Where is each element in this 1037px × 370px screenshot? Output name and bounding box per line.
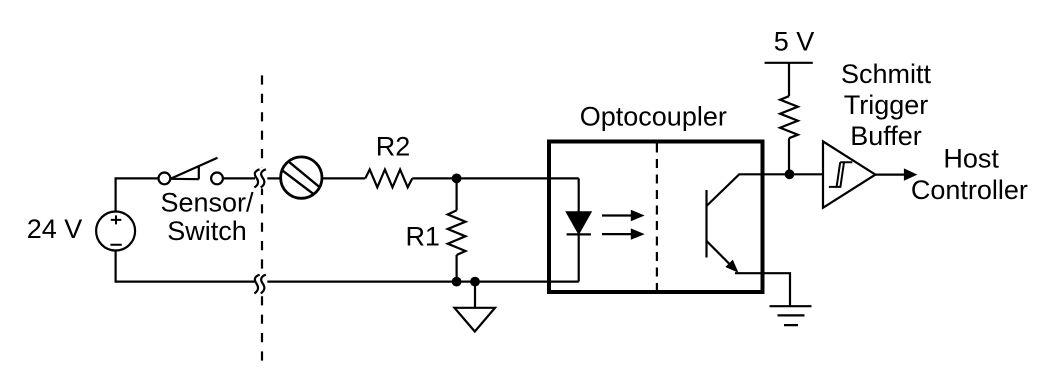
wire switch to break <box>223 177 255 179</box>
LED D1 triangle <box>567 212 590 233</box>
svg-text:R2: R2 <box>376 131 411 161</box>
svg-text:24 V: 24 V <box>27 214 83 244</box>
LED D1 anode wire <box>578 178 580 212</box>
svg-text:Optocoupler: Optocoupler <box>580 102 727 132</box>
resistor R1 <box>448 210 466 255</box>
voltage source V1 <box>96 212 135 251</box>
node (ground branch) <box>470 277 480 287</box>
wire circle to R2 <box>322 177 365 179</box>
pull-up resistor <box>780 96 798 138</box>
wire resistor to node <box>788 138 790 174</box>
svg-text:Host: Host <box>943 143 999 173</box>
switch S1 contacts <box>159 173 171 185</box>
svg-text:Sensor/: Sensor/ <box>160 188 254 218</box>
node (collector/pull-up/buffer) <box>785 169 795 179</box>
output arrowhead <box>904 168 918 180</box>
wire to signal ground <box>474 282 476 308</box>
5 V supply rail bar <box>765 62 813 64</box>
output wire <box>875 174 904 176</box>
node (R2/R1 junction) <box>452 174 462 184</box>
wire break (top rail) <box>260 168 265 189</box>
node (R1 bottom) <box>452 277 462 287</box>
wire break (bottom rail) <box>260 272 265 294</box>
wire junction down to R1 <box>456 178 458 210</box>
boundary dashed line <box>261 75 263 362</box>
svg-text:R1: R1 <box>405 221 440 251</box>
ground (earth, right) <box>770 306 812 325</box>
svg-text:Schmitt: Schmitt <box>841 59 932 89</box>
svg-text:Buffer: Buffer <box>850 121 922 151</box>
svg-text:Controller: Controller <box>911 175 1028 205</box>
LED D1 cathode wire <box>578 234 580 281</box>
ground (signal, triangle) <box>455 308 496 332</box>
wire break to circle <box>267 177 280 179</box>
phototransistor Q1 emitter lead <box>707 241 739 273</box>
hysteresis symbol <box>829 162 852 187</box>
wire R2 to optocoupler LED branch <box>412 177 578 179</box>
bottom rail: break to optocoupler <box>267 281 578 283</box>
emitter wire to ground <box>735 273 790 306</box>
phototransistor Q1 base bar <box>705 190 707 258</box>
svg-text:Trigger: Trigger <box>844 90 929 120</box>
light emission arrow 2 <box>602 228 645 239</box>
wire top-left from source to switch <box>116 178 158 211</box>
wire source bottom to bottom rail <box>116 251 255 282</box>
optocoupler internal dashed divider <box>656 144 658 291</box>
light emission arrow 1 <box>602 210 645 221</box>
resistor R2 <box>365 170 412 188</box>
Schmitt trigger buffer U2 triangle <box>823 141 875 207</box>
svg-text:5 V: 5 V <box>774 27 815 57</box>
wire R1 to bottom rail <box>456 255 458 282</box>
hatched circle (field wiring symbol) <box>281 157 322 198</box>
svg-text:Switch: Switch <box>167 216 247 246</box>
LED D1 cathode bar <box>567 233 591 235</box>
phototransistor Q1 collector lead <box>707 174 824 206</box>
wire rail to pull-up resistor <box>788 63 790 96</box>
switch S1 lever <box>171 158 218 179</box>
optocoupler U1 box <box>549 142 763 293</box>
